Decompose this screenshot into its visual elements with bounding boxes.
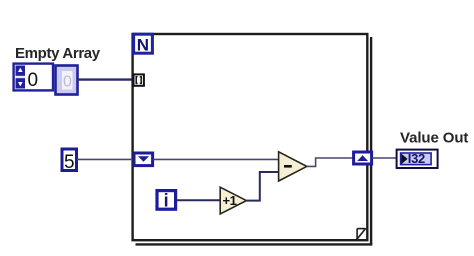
- constant 5: [62, 149, 77, 173]
- svg-text:N: N: [137, 36, 149, 55]
- svg-text:i: i: [164, 191, 169, 211]
- label Empty Array: [15, 45, 101, 62]
- wire subtract to right shift register: [307, 158, 353, 166]
- svg-text:+1: +1: [223, 193, 237, 208]
- svg-text:Empty Array: Empty Array: [15, 45, 101, 62]
- wire array to tunnel: [78, 78, 134, 80]
- svg-text:5: 5: [64, 152, 75, 173]
- wire 5 to left shift register: [77, 158, 133, 160]
- left shift register: [134, 153, 153, 166]
- wire to Value Out: [372, 157, 397, 159]
- array element box: [56, 66, 78, 95]
- wire shift register to subtract: [153, 158, 279, 160]
- wire increment to subtract: [246, 172, 279, 201]
- wire i to increment: [176, 199, 220, 201]
- for loop border: [133, 34, 373, 245]
- loop count terminal N: [134, 34, 153, 54]
- tunnel (array in): [134, 74, 144, 85]
- resize fold corner: [357, 228, 366, 239]
- subtract node: [279, 152, 307, 181]
- iteration terminal i: [157, 191, 176, 211]
- label Value Out: [400, 130, 468, 147]
- svg-text:0: 0: [63, 74, 72, 91]
- svg-text:0: 0: [28, 70, 39, 91]
- increment node +1: [220, 187, 246, 214]
- indicator terminal Value Out I32: [397, 150, 438, 168]
- svg-text:I32: I32: [408, 151, 425, 166]
- array index display: [14, 64, 53, 91]
- svg-text:Value Out: Value Out: [400, 130, 468, 147]
- right shift register: [354, 152, 372, 164]
